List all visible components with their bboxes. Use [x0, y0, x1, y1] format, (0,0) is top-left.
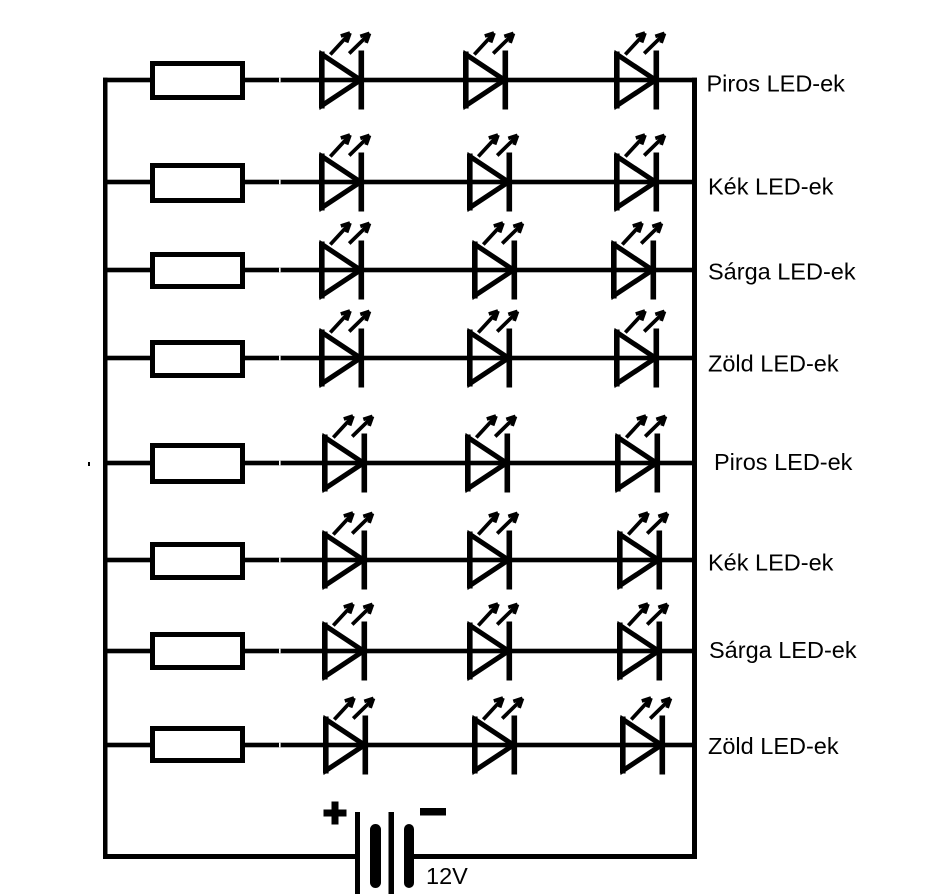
svg-text:Sárga LED-ek: Sárga LED-ek: [708, 259, 856, 285]
wire: right bus vertical: [692, 78, 697, 859]
node label: Piros LED-ek (row 1): [707, 71, 846, 97]
wire: row 2 bus to resistor R2: [103, 180, 152, 185]
node label: Kék LED-ek (row 6): [708, 550, 834, 576]
wire: row 6 bus to resistor R6: [103, 558, 152, 563]
LED D4: [319, 135, 370, 212]
resistor R8: [153, 729, 243, 761]
svg-text:Zöld LED-ek: Zöld LED-ek: [708, 351, 839, 377]
wire: row 1 resistor to right bus through LEDs: [243, 78, 697, 83]
node label: Zöld LED-ek (row 8): [708, 733, 839, 759]
LED D21: [617, 604, 668, 681]
LED D24: [620, 698, 671, 775]
value label 12V: [426, 863, 468, 889]
LED D6: [614, 135, 665, 212]
LED D2: [463, 33, 514, 110]
resistor R4: [153, 343, 243, 376]
svg-text:Sárga LED-ek: Sárga LED-ek: [709, 637, 857, 663]
LED D8: [472, 223, 523, 300]
node label: Sárga LED-ek (row 7): [709, 637, 857, 663]
LED D14: [465, 416, 516, 493]
wire: row 8 bus to resistor R8: [103, 743, 152, 748]
LED D23: [472, 698, 523, 775]
wire: row 6 resistor to right bus through LEDs: [243, 558, 697, 563]
LED D10: [319, 311, 370, 388]
node label: Kék LED-ek (row 2): [708, 174, 834, 200]
LED D15: [615, 416, 666, 493]
wire: bottom left segment to battery +: [103, 854, 357, 859]
wire: left bus vertical: [103, 78, 108, 859]
resistor R6: [153, 545, 243, 578]
node label: Piros LED-ek (row 5): [714, 449, 853, 475]
LED D18: [617, 513, 668, 590]
node label: Sárga LED-ek (row 3): [708, 259, 856, 285]
LED D22: [323, 698, 374, 775]
wire: row 3 bus to resistor R3: [103, 268, 152, 273]
resistor R1: [153, 64, 243, 98]
LED D11: [467, 311, 518, 388]
LED D12: [614, 311, 665, 388]
svg-text:Piros LED-ek: Piros LED-ek: [714, 449, 853, 475]
LED D1: [319, 33, 370, 110]
wire: row 7 resistor to right bus through LEDs: [243, 649, 697, 654]
resistor R7: [153, 635, 243, 668]
node label: Zöld LED-ek (row 4): [708, 351, 839, 377]
svg-text:Kék LED-ek: Kék LED-ek: [708, 174, 834, 200]
LED D17: [467, 513, 518, 590]
wire: row 3 resistor to right bus through LEDs: [243, 268, 697, 273]
wire: row 7 bus to resistor R7: [103, 649, 152, 654]
LED D9: [611, 223, 662, 300]
resistor R5: [153, 446, 243, 482]
wire: row 4 resistor to right bus through LEDs: [243, 356, 697, 361]
LED D7: [319, 223, 370, 300]
wire: row 4 bus to resistor R4: [103, 356, 152, 361]
svg-text:Piros LED-ek: Piros LED-ek: [707, 71, 846, 97]
wire: row 1 bus to resistor R1: [103, 78, 152, 83]
battery BT1 12V: [355, 812, 414, 894]
resistor R3: [153, 255, 243, 287]
svg-text:Kék LED-ek: Kék LED-ek: [708, 550, 834, 576]
LED D16: [322, 513, 373, 590]
LED D13: [322, 416, 373, 493]
wire: bottom right segment from battery -: [412, 854, 697, 859]
battery plus terminal symbol: [324, 802, 347, 825]
LED D3: [614, 33, 665, 110]
svg-text:12V: 12V: [426, 863, 468, 889]
LED D20: [467, 604, 518, 681]
svg-text:Zöld LED-ek: Zöld LED-ek: [708, 733, 839, 759]
stray dot artifact: [88, 462, 90, 466]
wire: row 5 resistor to right bus through LEDs: [243, 461, 697, 466]
battery minus terminal symbol: [420, 808, 446, 816]
LED D5: [467, 135, 518, 212]
wire: row 5 bus to resistor R5: [103, 461, 152, 466]
LED D19: [322, 604, 373, 681]
wire: row 2 resistor to right bus through LEDs: [243, 180, 697, 185]
resistor R2: [153, 166, 243, 201]
wire: row 8 resistor to right bus through LEDs: [243, 743, 697, 748]
